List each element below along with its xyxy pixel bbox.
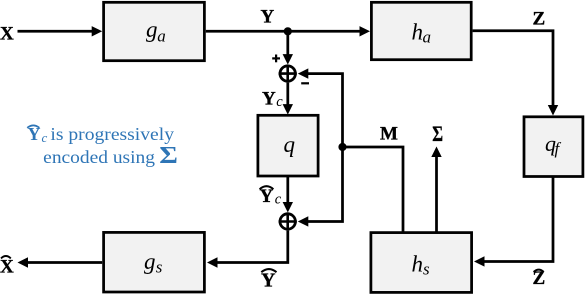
junction dot Y [284, 27, 292, 35]
block q_f [524, 117, 583, 177]
block h_s [371, 233, 472, 293]
node label Z_hat [533, 268, 546, 289]
svg-text:M: M [380, 124, 398, 145]
block g_a [104, 2, 205, 60]
svg-text:g: g [144, 249, 156, 274]
svg-text:s: s [423, 260, 430, 279]
output label X_hat [0, 256, 14, 278]
wire q_f to h_s [474, 177, 553, 267]
svg-text:Z: Z [533, 268, 546, 289]
svg-text:Y: Y [261, 7, 275, 28]
svg-text:a: a [157, 27, 166, 46]
svg-text:h: h [412, 252, 424, 277]
svg-text:Z: Z [533, 8, 546, 29]
node label M [380, 124, 398, 145]
svg-text:X: X [0, 257, 14, 278]
svg-text:Y: Y [260, 186, 274, 207]
svg-text:Y: Y [262, 89, 276, 110]
wire M junction to adder A1 [298, 68, 343, 147]
node label Y_hat [261, 269, 277, 291]
svg-text:g: g [146, 17, 158, 42]
node label Y [261, 7, 275, 28]
block q [258, 115, 318, 176]
wire M junction to adder A2 [298, 147, 343, 227]
svg-text:c: c [275, 192, 282, 208]
wire A2 to g_s [207, 231, 288, 268]
svg-text:Y: Y [261, 269, 276, 291]
junction dot M [338, 143, 346, 151]
node label Sigma [432, 121, 443, 146]
svg-text:Σ: Σ [432, 121, 443, 146]
node label Yc [262, 89, 283, 111]
block h_a [371, 2, 471, 59]
svg-text:a: a [423, 28, 432, 47]
block g_s [104, 232, 205, 292]
node label Z [533, 8, 546, 29]
wire g_a to h_a [206, 26, 370, 36]
svg-text:c: c [42, 130, 48, 145]
wire X to g_a [18, 26, 103, 36]
wire h_a to q_f [473, 31, 559, 116]
svg-text:X: X [0, 24, 14, 45]
caption blue text [27, 124, 178, 169]
input label X [0, 24, 14, 45]
svg-text:Σ: Σ [159, 143, 178, 169]
wire g_s to X_hat [18, 257, 103, 267]
svg-text:Y: Y [28, 124, 41, 144]
wire A1 to q [283, 83, 293, 115]
node label Yc_hat [260, 186, 282, 208]
wire q to adder A2 [283, 177, 293, 213]
svg-text:h: h [412, 20, 424, 45]
adder A2 [279, 212, 297, 230]
svg-text:s: s [156, 258, 163, 277]
svg-text:encoded using: encoded using [43, 147, 155, 167]
wire h_s to M junction [343, 147, 404, 233]
svg-text:is progressively: is progressively [50, 124, 174, 144]
arrow sigma out of h_s [431, 147, 441, 233]
svg-text:q: q [284, 132, 296, 157]
svg-text:c: c [276, 94, 283, 110]
adder A1 [272, 55, 309, 84]
wire Y junction to adder A1 [283, 31, 293, 64]
